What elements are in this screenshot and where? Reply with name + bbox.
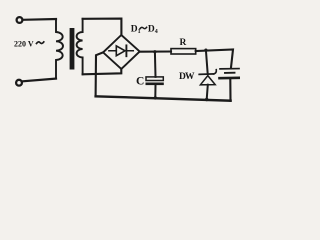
transformer T secondary winding bbox=[77, 19, 83, 75]
wire secondary bottom to bridge bbox=[83, 69, 122, 75]
junction node: C top on +V rail bbox=[153, 50, 156, 53]
svg-text:R: R bbox=[180, 38, 187, 48]
zener DW top lead bbox=[206, 50, 208, 74]
svg-text:C: C bbox=[136, 76, 144, 88]
zener DW curl bbox=[214, 70, 217, 74]
wire: bottom terminal to transformer primary bbox=[22, 79, 56, 82]
battery GB bottom lead to ground rail bbox=[229, 79, 231, 101]
junction node: C bottom on ground rail bbox=[154, 96, 157, 99]
capacitor C dropper bbox=[154, 52, 157, 77]
bridge rectifier inner diode symbol bbox=[109, 50, 133, 52]
wire: bridge positive output to resistor R bbox=[140, 50, 171, 52]
junction node: DW bottom on ground rail bbox=[205, 98, 208, 101]
capacitor C bottom plate bbox=[146, 83, 164, 86]
transformer T core bbox=[70, 28, 75, 70]
AC input terminal (top) bbox=[17, 17, 23, 23]
capacitor C bottom stub bbox=[154, 85, 156, 98]
battery GB long plate (top) bbox=[220, 68, 239, 70]
bridge rectifier D1-D4 diamond bbox=[103, 35, 140, 69]
junction node: DW top on +V rail bbox=[204, 49, 207, 52]
wire: ground rail (bottom) bbox=[96, 96, 231, 100]
wire: R to battery branch (top-right corner) bbox=[196, 50, 233, 69]
wire: top terminal to transformer primary bbox=[23, 18, 56, 21]
zener DW cathode bar bbox=[199, 73, 214, 76]
wire secondary top to bridge bbox=[83, 19, 122, 36]
resistor R bbox=[171, 49, 196, 54]
AC input terminal (bottom) bbox=[16, 80, 22, 86]
capacitor C top plate (hollow) bbox=[146, 77, 163, 81]
battery GB short plate (middle) bbox=[225, 72, 235, 74]
zener DW bottom stub bbox=[207, 85, 208, 100]
transformer T primary winding bbox=[56, 19, 63, 79]
svg-text:DW: DW bbox=[179, 72, 195, 82]
zener DW triangle bbox=[200, 76, 215, 85]
battery GB long plate (bottom) bbox=[220, 77, 240, 80]
wire: bridge negative output down to ground rail bbox=[96, 52, 104, 96]
svg-text:220 V: 220 V bbox=[14, 38, 34, 48]
